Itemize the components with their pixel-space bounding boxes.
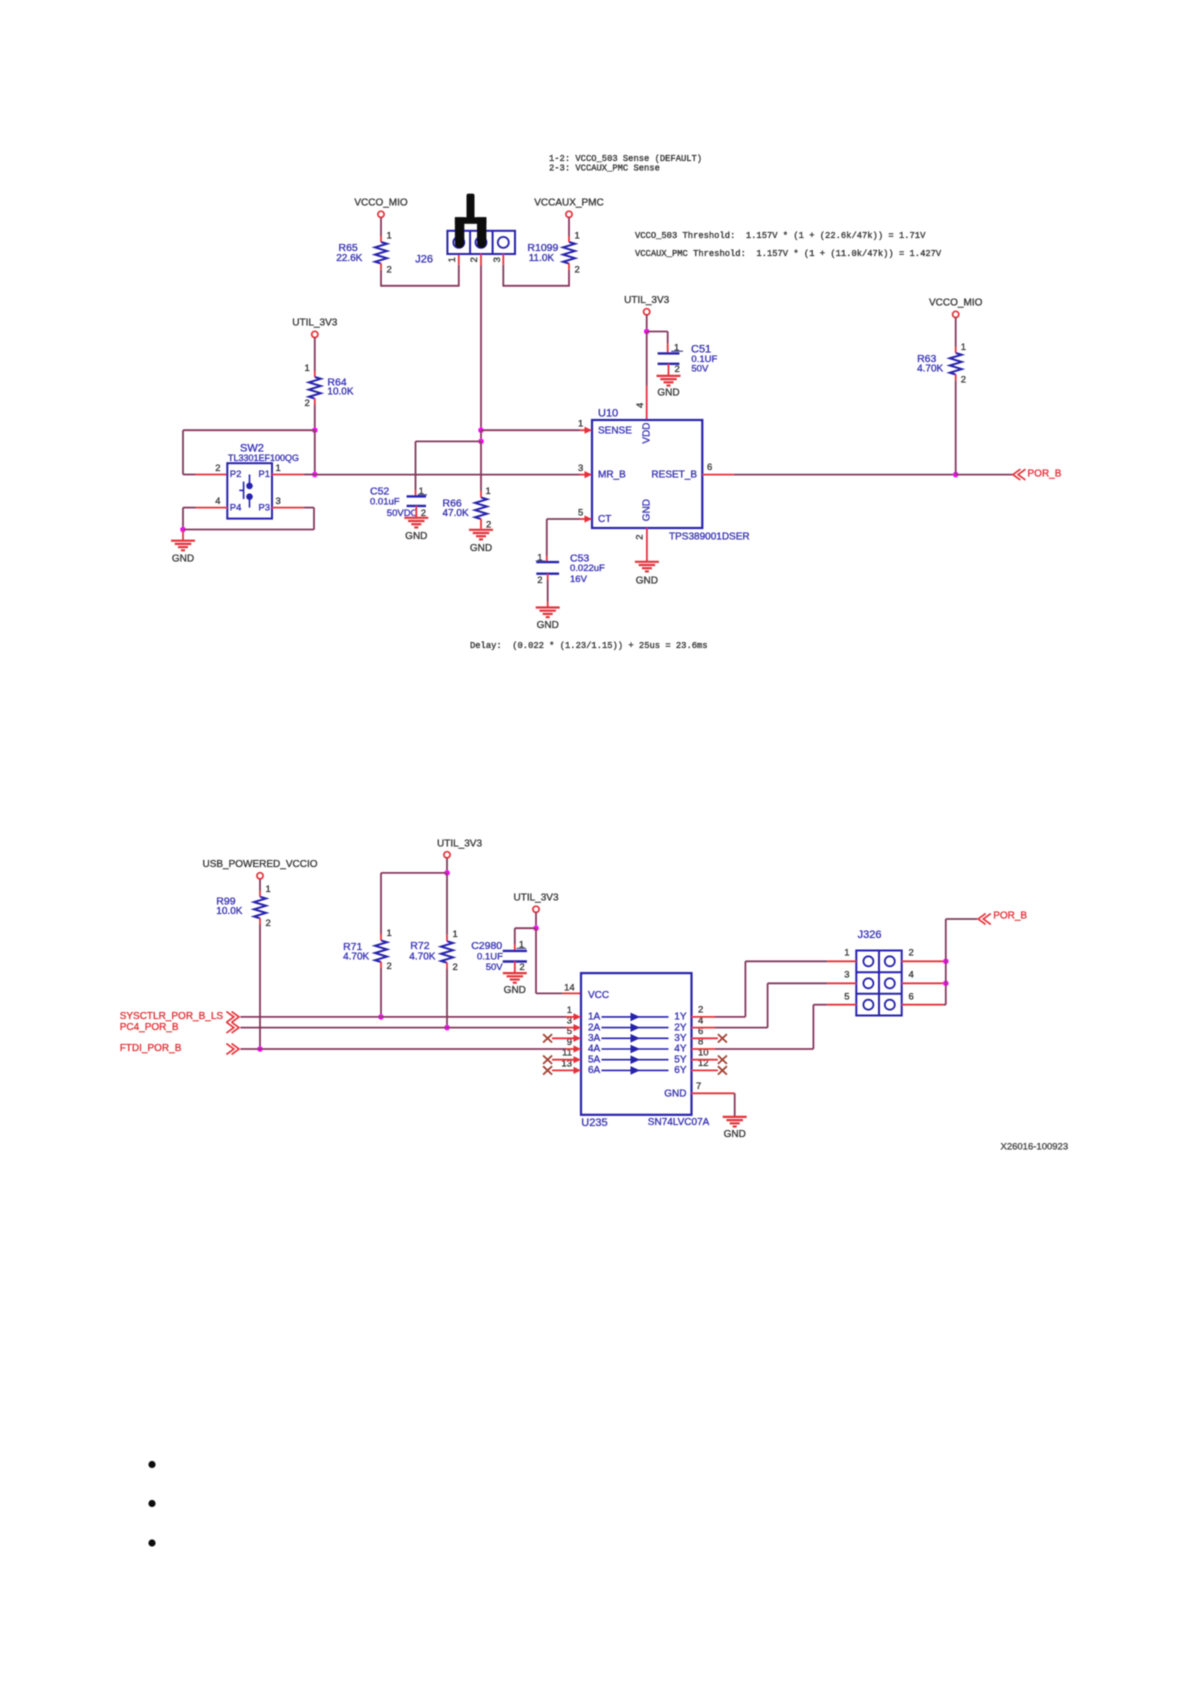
node M junction xyxy=(943,959,949,965)
resistor R63 xyxy=(950,353,962,375)
svg-text:22.6K: 22.6K xyxy=(336,253,362,264)
resistor R72 xyxy=(441,941,453,963)
wire SENSE net to U10 pin 1 xyxy=(481,429,580,431)
wire U235 4Y to J326 pin 5 xyxy=(692,1048,716,1050)
svg-text:SYSCTLR_POR_B_LS: SYSCTLR_POR_B_LS xyxy=(120,1011,224,1022)
no-connect stub 3Y (pin 6) xyxy=(692,1037,718,1039)
svg-text:GND: GND xyxy=(405,531,427,542)
wire C53 pin 2 to ground xyxy=(547,574,549,580)
svg-text:0.1UF: 0.1UF xyxy=(477,952,503,963)
wire J26 pin 2 down to SENSE net xyxy=(480,254,482,266)
wire VCCO_MIO to R63 pin 1 xyxy=(955,318,957,347)
wire node E down to R66 pin 1 xyxy=(480,441,482,491)
jumper J26 xyxy=(447,231,515,254)
buffer gate 1 inside U235 xyxy=(602,1016,669,1018)
svg-text:1: 1 xyxy=(575,231,580,242)
power flag VCCAUX_PMC xyxy=(566,211,572,217)
capacitor C2980 xyxy=(503,950,527,952)
no-connect stub 6Y (pin 12) xyxy=(692,1069,718,1071)
svg-text:CT: CT xyxy=(598,514,611,525)
node I junction xyxy=(444,870,450,876)
wire U235 2Y to J326 pin 3 xyxy=(692,1027,716,1029)
svg-text:C2980: C2980 xyxy=(471,940,502,952)
wire POR_B vertical riser xyxy=(945,919,947,1005)
svg-text:4.70K: 4.70K xyxy=(917,364,943,375)
svg-text:U235: U235 xyxy=(581,1117,607,1129)
svg-text:USB_POWERED_VCCIO: USB_POWERED_VCCIO xyxy=(202,859,317,870)
svg-text:Delay: (0.022 * (1.23/1.15)): Delay: (0.022 * (1.23/1.15)) + 25us = 23… xyxy=(470,641,708,651)
ground symbol below C2980 xyxy=(503,972,527,974)
svg-text:4: 4 xyxy=(215,496,220,507)
svg-text:2: 2 xyxy=(575,265,580,276)
svg-text:4A: 4A xyxy=(588,1044,601,1055)
wire ground loop under SW2 xyxy=(183,529,314,531)
svg-text:10.0K: 10.0K xyxy=(216,906,242,917)
svg-text:5: 5 xyxy=(844,991,849,1002)
buffer gate 2 inside U235 xyxy=(602,1027,669,1029)
wire VCCAUX_PMC to R1099 pin 1 xyxy=(568,217,570,236)
svg-text:1: 1 xyxy=(674,343,679,354)
svg-text:PC4_POR_B: PC4_POR_B xyxy=(120,1022,179,1033)
off-page connector FTDI_POR_B xyxy=(226,1044,239,1055)
power flag UTIL_3V3 (above R71/R72) xyxy=(444,852,450,858)
wire J326 pin 2 to POR_B net xyxy=(902,960,944,962)
svg-text:1: 1 xyxy=(266,884,271,895)
node L junction xyxy=(533,925,539,931)
svg-text:2-3: VCCAUX_PMC Sense: 2-3: VCCAUX_PMC Sense xyxy=(549,163,660,173)
svg-text:2: 2 xyxy=(909,948,914,959)
pin 5 arrow U235 input 3A xyxy=(574,1035,582,1042)
svg-text:GND: GND xyxy=(642,499,653,521)
svg-text:2: 2 xyxy=(469,257,480,262)
ground symbol below C51 xyxy=(657,375,681,377)
svg-text:47.0K: 47.0K xyxy=(443,508,469,519)
node A junction xyxy=(312,427,318,433)
resistor R64 xyxy=(309,377,321,399)
svg-text:0.01uF: 0.01uF xyxy=(370,497,400,508)
svg-text:2: 2 xyxy=(305,398,310,409)
svg-text:2: 2 xyxy=(266,918,271,929)
svg-text:2: 2 xyxy=(387,265,392,276)
resistor R71 xyxy=(375,940,387,962)
node N junction xyxy=(943,981,949,987)
no-connect stub 3A (pin 5) xyxy=(552,1037,574,1039)
wire U235 1Y to J326 pin 1 xyxy=(692,1016,716,1018)
svg-text:X26016-100923: X26016-100923 xyxy=(1001,1142,1069,1153)
wire C2980 pin 2 to ground xyxy=(514,962,516,973)
svg-text:SN74LVC07A: SN74LVC07A xyxy=(648,1117,710,1128)
wire node I left to R71 pin 1 xyxy=(381,872,447,874)
wire C52 pin 2 to ground xyxy=(415,506,417,518)
pin 3 arrow U10 MR_B xyxy=(585,471,593,478)
svg-text:TPS389001DSER: TPS389001DSER xyxy=(669,532,750,543)
svg-text:VCCO_MIO: VCCO_MIO xyxy=(354,198,408,209)
wire USB_POWERED_VCCIO to R99 pin 1 xyxy=(259,879,261,891)
wire J326 pin 6 to POR_B net xyxy=(902,1004,944,1006)
wire R1099 pin 2 to J26 pin 3 xyxy=(568,263,570,269)
svg-text:1: 1 xyxy=(387,231,392,242)
svg-text:U10: U10 xyxy=(598,407,618,419)
power flag USB_POWERED_VCCIO xyxy=(257,873,263,879)
wire node I down to R72 pin 1 xyxy=(446,873,448,935)
resistor R65 xyxy=(375,242,387,264)
svg-text:J26: J26 xyxy=(415,254,433,266)
svg-text:1: 1 xyxy=(486,486,491,497)
svg-text:VCCAUX_PMC Threshold: 1.157V: VCCAUX_PMC Threshold: 1.157V * (1 + (11.… xyxy=(635,249,942,259)
svg-text:1: 1 xyxy=(537,552,542,563)
svg-text:6: 6 xyxy=(707,462,712,473)
wire UTIL_3V3 down to node F xyxy=(646,315,648,332)
svg-text:5: 5 xyxy=(578,508,583,519)
svg-text:UTIL_3V3: UTIL_3V3 xyxy=(624,295,669,306)
svg-text:6Y: 6Y xyxy=(674,1065,687,1076)
power flag UTIL_3V3 (above C2980) xyxy=(533,906,539,912)
svg-text:3A: 3A xyxy=(588,1033,601,1044)
svg-text:GND: GND xyxy=(172,553,194,564)
svg-text:3Y: 3Y xyxy=(674,1033,687,1044)
node D junction (SENSE net) xyxy=(478,427,484,433)
svg-text:POR_B: POR_B xyxy=(993,911,1027,922)
no-connect stub 6A (pin 13) xyxy=(552,1069,574,1071)
capacitor C51 xyxy=(658,352,680,354)
wire R99 pin 2 down to FTDI_POR_B net xyxy=(259,918,261,924)
buffer gate 3 inside U235 xyxy=(602,1037,669,1039)
wire node A down to node B xyxy=(314,430,316,474)
svg-text:7: 7 xyxy=(696,1081,701,1092)
svg-text:UTIL_3V3: UTIL_3V3 xyxy=(292,318,337,329)
power flag VCCO_MIO (left) xyxy=(378,211,384,217)
resistor R99 xyxy=(254,897,266,919)
wire R65 pin 2 to J26 pin 1 xyxy=(380,263,382,269)
ground symbol below R66 xyxy=(469,529,493,531)
off-page connector POR_B (top) xyxy=(1013,469,1026,480)
power flag UTIL_3V3 (left) xyxy=(312,331,318,337)
wire SW2 pin 1 to node B xyxy=(272,474,304,476)
pin 3 arrow U235 input 2A xyxy=(574,1024,582,1031)
svg-text:2: 2 xyxy=(453,962,458,973)
svg-text:4.70K: 4.70K xyxy=(409,952,435,963)
wire SW2 pin 4 to ground loop xyxy=(196,507,228,509)
capacitor C52 xyxy=(407,495,426,497)
power flag VCCO_MIO (right) xyxy=(953,311,959,317)
wire UTIL_3V3 down to node L xyxy=(535,912,537,928)
svg-text:TL3301EF100QG: TL3301EF100QG xyxy=(228,453,299,463)
svg-text:2: 2 xyxy=(961,375,966,386)
svg-text:VDD: VDD xyxy=(642,422,653,443)
wire UTIL_3V3 to node I xyxy=(446,858,448,873)
svg-text:GND: GND xyxy=(664,1089,686,1100)
wire U10 CT pin 5 to C53 xyxy=(580,518,591,520)
wire node L down to U235 VCC pin 14 xyxy=(535,928,537,993)
wire R72 pin 2 down to node K xyxy=(446,963,448,969)
svg-text:VCCO_MIO: VCCO_MIO xyxy=(929,298,983,309)
wire U10 GND pin 2 to ground xyxy=(646,528,648,562)
svg-text:P4: P4 xyxy=(230,502,242,513)
svg-text:GND: GND xyxy=(470,543,492,554)
buffer gate 5 inside U235 xyxy=(602,1059,669,1061)
svg-text:4: 4 xyxy=(909,970,914,981)
wire U235 GND pin 7 to ground xyxy=(692,1092,735,1094)
svg-text:FTDI_POR_B: FTDI_POR_B xyxy=(120,1043,182,1054)
wire R64 pin 2 down to node A xyxy=(314,398,316,404)
svg-text:2: 2 xyxy=(537,575,542,586)
pin 5 arrow U10 CT xyxy=(585,515,593,522)
bullet list item 1 xyxy=(148,1461,155,1468)
buffer gate 6 inside U235 xyxy=(602,1069,669,1071)
svg-text:2: 2 xyxy=(698,1005,703,1016)
svg-text:1: 1 xyxy=(276,463,281,474)
svg-text:3: 3 xyxy=(276,496,281,507)
pin 11 arrow U235 input 5A xyxy=(574,1056,582,1063)
resistor R66 xyxy=(475,498,487,520)
power flag UTIL_3V3 (above U10) xyxy=(644,309,650,315)
node H junction on FTDI_POR_B xyxy=(257,1046,263,1052)
wire node L to C2980 pin 1 xyxy=(515,927,536,929)
SW2 pushbutton symbol xyxy=(239,475,252,508)
svg-text:POR_B: POR_B xyxy=(1028,469,1062,480)
svg-text:VCCAUX_PMC: VCCAUX_PMC xyxy=(534,198,603,209)
wire node F to C51 pin 1 xyxy=(647,331,668,333)
svg-text:0.022uF: 0.022uF xyxy=(570,563,605,574)
jumper cap shunt on J26 pins 1-2 xyxy=(455,194,487,249)
svg-text:2: 2 xyxy=(675,364,680,375)
wire R71 pin 2 down to node J xyxy=(380,962,382,968)
svg-text:50V: 50V xyxy=(486,962,504,973)
ground symbol below C52 xyxy=(404,517,428,519)
svg-text:RESET_B: RESET_B xyxy=(651,470,697,481)
svg-text:14: 14 xyxy=(564,983,575,994)
ground symbol below U235 xyxy=(723,1116,747,1118)
svg-text:GND: GND xyxy=(537,620,559,631)
ground symbol below U10 xyxy=(635,561,659,563)
wire UTIL_3V3 to R64 pin 1 xyxy=(314,338,316,372)
svg-text:P1: P1 xyxy=(258,469,270,480)
pin 1 arrow U235 input 1A xyxy=(574,1013,582,1020)
node B junction (MR_B net) xyxy=(312,472,318,478)
node G junction (R63/POR_B) xyxy=(953,472,959,478)
pin 13 arrow U235 input 6A xyxy=(574,1067,582,1074)
node J junction on SYSCTLR_POR_B_LS xyxy=(378,1014,384,1020)
svg-text:50V: 50V xyxy=(691,364,709,375)
wire SYSCTLR_POR_B_LS to U235 1A xyxy=(241,1016,567,1018)
node C junction (SW2 ground) xyxy=(180,527,186,533)
svg-text:R72: R72 xyxy=(410,940,429,952)
svg-text:UTIL_3V3: UTIL_3V3 xyxy=(513,893,558,904)
svg-text:UTIL_3V3: UTIL_3V3 xyxy=(437,839,482,850)
node K junction on PC4_POR_B xyxy=(444,1025,450,1031)
svg-text:1: 1 xyxy=(567,1005,572,1016)
wire FTDI_POR_B to U235 4A xyxy=(241,1048,567,1050)
svg-text:1: 1 xyxy=(961,342,966,353)
svg-text:6A: 6A xyxy=(588,1065,601,1076)
pin 9 arrow U235 input 4A xyxy=(574,1045,582,1052)
svg-text:2: 2 xyxy=(215,463,220,474)
svg-text:1: 1 xyxy=(453,929,458,940)
svg-text:3: 3 xyxy=(578,463,583,474)
off-page connector PC4_POR_B xyxy=(226,1022,239,1033)
wire R63 pin 2 down to node G xyxy=(955,374,957,380)
wire PC4_POR_B to U235 2A xyxy=(241,1027,567,1029)
ground symbol below SW2 xyxy=(171,540,195,542)
svg-text:1A: 1A xyxy=(588,1012,601,1023)
svg-text:GND: GND xyxy=(724,1129,746,1140)
svg-text:GND: GND xyxy=(504,985,526,996)
svg-text:16V: 16V xyxy=(570,574,588,585)
svg-text:1: 1 xyxy=(844,948,849,959)
svg-text:VCCO_503 Threshold: 1.157V *: VCCO_503 Threshold: 1.157V * (1 + (22.6k… xyxy=(635,231,926,241)
svg-text:GND: GND xyxy=(657,387,679,398)
wire SW2 pin 3 stub xyxy=(272,507,304,509)
svg-text:3: 3 xyxy=(492,257,503,262)
svg-text:1: 1 xyxy=(578,419,583,430)
svg-text:2A: 2A xyxy=(588,1022,601,1033)
wire J326 pin 4 to POR_B net xyxy=(902,982,944,984)
svg-text:3: 3 xyxy=(844,970,849,981)
ground symbol below C53 xyxy=(536,606,560,608)
wire node A left and down to SW2 pin 2 xyxy=(183,429,316,431)
resistor R1099 xyxy=(563,242,575,264)
wire node E left to C52 xyxy=(416,440,482,442)
pin 1 arrow U10 SENSE xyxy=(585,427,593,434)
wire node C to ground xyxy=(182,530,184,541)
no-connect stub 5A (pin 11) xyxy=(552,1059,574,1061)
wire C51 pin 2 to ground xyxy=(668,364,670,376)
svg-text:5Y: 5Y xyxy=(674,1054,687,1065)
wire MR_B net node B to U10 pin 3 xyxy=(315,474,580,476)
svg-text:1: 1 xyxy=(447,257,458,262)
svg-text:5A: 5A xyxy=(588,1054,601,1065)
off-page connector SYSCTLR_POR_B_LS xyxy=(226,1012,239,1023)
svg-text:2: 2 xyxy=(387,961,392,972)
bullet list item 2 xyxy=(148,1500,155,1507)
svg-text:4Y: 4Y xyxy=(674,1044,687,1055)
IC U235 SN74LVC07A xyxy=(581,973,692,1115)
wire U10 RESET_B pin 6 to POR_B xyxy=(702,474,733,476)
svg-text:10.0K: 10.0K xyxy=(327,387,353,398)
bullet list item 3 xyxy=(148,1539,155,1546)
svg-text:GND: GND xyxy=(636,576,658,587)
node F junction xyxy=(644,329,650,335)
svg-text:P3: P3 xyxy=(258,502,270,513)
svg-text:J326: J326 xyxy=(858,929,882,941)
svg-text:MR_B: MR_B xyxy=(598,470,626,481)
svg-text:4: 4 xyxy=(635,403,646,408)
svg-text:1: 1 xyxy=(305,363,310,374)
svg-text:VCC: VCC xyxy=(588,990,609,1001)
node E junction (C52/R66) xyxy=(478,439,484,445)
no-connect stub 5Y (pin 10) xyxy=(692,1059,718,1061)
wire R66 pin 2 to ground xyxy=(480,519,482,529)
off-page connector POR_B (bottom) xyxy=(978,914,991,925)
svg-text:2Y: 2Y xyxy=(674,1022,687,1033)
buffer gate 4 inside U235 xyxy=(602,1048,669,1050)
svg-text:1Y: 1Y xyxy=(674,1012,687,1023)
svg-text:4.70K: 4.70K xyxy=(343,952,369,963)
wire node D to node E xyxy=(480,430,482,441)
svg-text:2: 2 xyxy=(635,534,646,539)
svg-text:P2: P2 xyxy=(230,469,242,480)
svg-text:1: 1 xyxy=(387,928,392,939)
wire node F down to U10 VDD pin 4 xyxy=(646,332,648,386)
svg-text:6: 6 xyxy=(909,991,914,1002)
svg-text:11.0K: 11.0K xyxy=(529,253,555,264)
capacitor C53 xyxy=(536,561,559,563)
svg-text:2: 2 xyxy=(519,962,524,973)
wire VCCO_MIO to R65 pin 1 xyxy=(380,217,382,236)
svg-text:SENSE: SENSE xyxy=(598,425,632,436)
